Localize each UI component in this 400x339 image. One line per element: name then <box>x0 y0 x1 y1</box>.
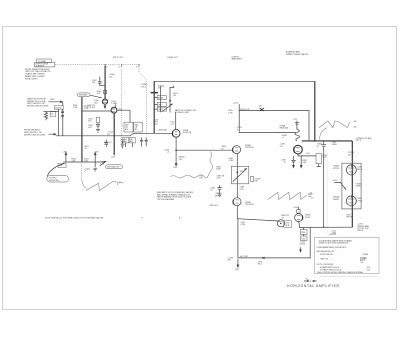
resistor R396 box <box>301 235 308 241</box>
wire V314 plate stub <box>114 105 116 108</box>
svg-text:R308 R34.7K 470: R308 R34.7K 470 <box>87 105 95 109</box>
diode CR472 on wire <box>258 106 264 111</box>
wire vertical left <box>58 109 60 136</box>
trimmer R387 arrow <box>233 169 247 182</box>
label oval sweep mag right <box>106 165 123 169</box>
capacitor C307 plates <box>98 77 105 86</box>
svg-text:AC TEST: AC TEST <box>240 255 249 258</box>
svg-text:+225: +225 <box>293 119 297 121</box>
svg-text:R434AW77W: R434AW77W <box>333 165 340 170</box>
wire upper plate feed <box>239 110 309 112</box>
svg-text:TO SWP: TO SWP <box>38 61 47 63</box>
wire cathode bottom run <box>299 226 352 228</box>
waveform baseline dashes <box>119 182 124 184</box>
svg-text:DISPLAY SW: DISPLAY SW <box>49 179 60 182</box>
pot R321 arrow <box>65 153 67 162</box>
wire divider drop <box>303 227 305 229</box>
resistor R302 zigzag <box>44 112 47 121</box>
resistor R388 body <box>251 176 254 181</box>
svg-text:37: 37 <box>136 67 138 69</box>
sweep cal box B <box>134 122 143 132</box>
svg-text:C30: C30 <box>51 113 54 115</box>
svg-text:100K: 100K <box>50 99 55 101</box>
wire vertical delay feed <box>153 81 155 133</box>
svg-text:DELAY CKT: DELAY CKT <box>168 56 179 59</box>
wire plate drop V384A <box>236 154 238 198</box>
wire vertical right <box>62 102 64 106</box>
connector pin lower <box>346 196 356 206</box>
svg-text:C380 .001: C380 .001 <box>209 205 218 207</box>
svg-text:R470 4.7K: R470 4.7K <box>240 109 250 111</box>
ground tick R399 <box>317 164 321 167</box>
capacitor C390 label <box>284 221 292 228</box>
wire arrow from oval to tube <box>90 95 102 98</box>
waveform leader arc <box>320 128 327 140</box>
wire drop to output bus <box>309 227 311 258</box>
wire arrow from sawtooth note <box>49 101 63 103</box>
svg-text:NOTE: SEE EB 20-1 FOR SEM: NOTE: SEE EB 20-1 FOR SEMICONDUCTOR TYPE… <box>45 217 104 220</box>
junction dot interstage <box>175 149 177 151</box>
capacitor C318 pair <box>140 138 148 147</box>
svg-text:R3071.2M: R3071.2M <box>73 105 78 109</box>
resistor R399 box <box>316 154 322 164</box>
wire grid feed <box>82 110 111 112</box>
wire arrow from delay note <box>49 133 56 135</box>
resistor R394 plate box <box>293 207 300 214</box>
tube V314 <box>111 107 117 113</box>
supply stub coil <box>295 121 299 130</box>
wire mid plate drop <box>308 111 310 141</box>
tube V384A <box>233 146 241 154</box>
resistor R397 chain <box>300 156 302 168</box>
wire vertical right of box <box>62 109 64 136</box>
dashed boundary wire right with jog <box>139 64 147 133</box>
resistor R395 box <box>301 230 308 235</box>
wire long drop C398 <box>323 150 325 227</box>
svg-text:R4721.2M: R4721.2M <box>228 110 233 114</box>
wire stub a <box>154 97 157 99</box>
pot label oval SWP MAG REGIS <box>78 93 90 97</box>
svg-text:L343 R343: L343 R343 <box>158 129 167 131</box>
tube V384B <box>233 198 241 206</box>
tube V394B <box>295 214 303 222</box>
svg-text:L390C390: L390C390 <box>241 222 246 226</box>
terminal tick 47 <box>136 64 139 68</box>
svg-text:SWP: SWP <box>125 124 129 126</box>
junction dot R387 <box>236 171 238 173</box>
capacitor C316 symbol <box>104 140 108 148</box>
capacitor ticks pair <box>61 111 64 117</box>
svg-text:+SW: +SW <box>94 151 98 153</box>
dashed wire from terminal box <box>55 63 139 65</box>
trimmer arrow <box>162 104 173 112</box>
waveform sawtooth left <box>86 182 118 191</box>
wire grid hook <box>170 86 174 112</box>
svg-text:BLANKING: BLANKING <box>36 64 45 67</box>
trimmer box R373 <box>157 96 166 100</box>
terminal tick 27 <box>105 64 107 68</box>
capacitor C370 plate bar <box>151 92 158 94</box>
reference mark B arrows <box>304 278 317 283</box>
capacitor C302 box <box>50 112 55 117</box>
wire stub c <box>154 108 157 110</box>
trimmer box R374 <box>157 107 166 111</box>
connector pin upper <box>346 165 356 175</box>
wire right plate drop <box>314 81 316 141</box>
main bus wire lower <box>56 133 172 136</box>
wire cathode drop V384B <box>236 206 238 219</box>
svg-text:+10: +10 <box>311 198 314 200</box>
terminal tick 37 <box>119 64 122 68</box>
svg-text:C472: C472 <box>258 106 262 108</box>
terminal box TO SWEEP / HIGH VOLTAGE <box>35 59 55 67</box>
trimmer box R387 <box>231 166 249 184</box>
faint rule below table <box>320 275 379 277</box>
svg-text:R396: R396 <box>301 238 305 240</box>
curve wire to horiz display <box>47 164 64 177</box>
svg-text:R395: R395 <box>301 232 305 234</box>
wire stub b <box>154 103 157 105</box>
wire cathode drop V343B <box>175 137 177 166</box>
svg-text:L442 R44: L442 R44 <box>329 234 336 236</box>
pot wiper feed <box>335 182 346 189</box>
svg-text:L384C384: L384C384 <box>229 158 234 162</box>
svg-text:L372+4.5: L372+4.5 <box>170 121 174 125</box>
sweep cal box A <box>124 122 133 132</box>
junction dot <box>169 100 171 102</box>
resistor R301 box <box>54 106 63 110</box>
ground symbol C383 <box>218 194 222 197</box>
wire cathode junction V394A <box>298 154 316 156</box>
output bus vertical <box>351 141 353 227</box>
tube V304 <box>102 99 107 104</box>
wire plate drop V314 <box>113 113 115 155</box>
pot R323 arrow <box>94 153 96 162</box>
wire lower interstage <box>237 219 278 221</box>
wire vertical into tube V304 <box>104 66 106 99</box>
wire box feed <box>117 110 130 122</box>
cable squiggle wire <box>170 152 212 179</box>
ground symbol bus2 <box>93 162 97 171</box>
wire coil feed <box>239 132 295 134</box>
svg-text:+80: +80 <box>309 192 312 194</box>
capacitor C311 plates <box>96 123 100 129</box>
svg-text:IN ALL CONTROL MODE LOWER: IN ALL CONTROL MODE LOWER ALL READINGS N… <box>317 271 363 274</box>
capacitor C317 symbol <box>121 142 125 149</box>
wire V304 cathode arrow <box>104 104 106 108</box>
capacitor C398 plates <box>321 141 326 150</box>
resistor R311 body <box>96 117 99 123</box>
svg-text:SWP: SWP <box>123 139 126 141</box>
tube V343B <box>172 129 180 137</box>
capacitor C396 chain <box>291 156 295 168</box>
svg-text:+140: +140 <box>353 121 357 123</box>
paper fold crease line <box>326 152 328 234</box>
wire plate line top <box>154 80 315 82</box>
ground symbol <box>96 129 100 132</box>
wire into tube V343 <box>175 112 177 129</box>
svg-text:+L447TNK-4: +L447TNK-4 <box>357 167 362 171</box>
dashed boundary wire left <box>121 64 123 147</box>
junction x mark <box>263 257 265 259</box>
svg-text:HORIZONTAL AMPLIFIER: HORIZONTAL AMPLIFIER <box>287 284 340 288</box>
wire cathode bus drop <box>81 97 83 162</box>
cathode bus 2 <box>64 161 106 163</box>
dashed drop below bus2 <box>81 164 83 179</box>
arrow supply down <box>113 153 115 155</box>
svg-text:V394B7DL39: V394B7DL39 <box>305 215 311 219</box>
wire interstage <box>176 149 233 151</box>
tube V394A <box>294 145 303 154</box>
svg-text:LINE: LINE <box>158 105 162 107</box>
trimmer box C <box>123 138 129 147</box>
wire deflection feed <box>302 140 353 142</box>
label oval to horizontal display <box>47 176 69 182</box>
svg-text:+ 180V: + 180V <box>293 207 299 209</box>
trimmer column wire <box>160 86 162 112</box>
svg-text:27: 27 <box>119 67 121 69</box>
waveform sawtooth center <box>268 192 307 199</box>
tube E390 <box>277 220 284 227</box>
voltage table box <box>314 237 379 273</box>
wire output bottom <box>238 257 310 259</box>
svg-text:+100: +100 <box>353 127 357 129</box>
capacitor C413 label with arrow <box>299 241 305 251</box>
wire arc to waveform <box>82 179 87 189</box>
inductor L394 coil <box>295 130 300 141</box>
svg-text:SWP MAG REG: SWP MAG REG <box>107 166 120 169</box>
svg-text:INPUT CKT: INPUT CKT <box>113 57 124 59</box>
svg-text:L441: L441 <box>333 180 337 182</box>
svg-text:SWP/MAG: SWP/MAG <box>79 94 88 97</box>
svg-text:VOLTAGES AND WAVEFORMS OBTA: VOLTAGES AND WAVEFORMS OBTAINED UNDER CO… <box>319 239 353 244</box>
supply arrow -150v <box>237 259 239 267</box>
capacitor C383 plates <box>217 185 221 193</box>
wire drop from V384B chain <box>237 219 239 258</box>
svg-text:C3901N-B: C3901N-B <box>285 223 290 227</box>
note marker dot <box>142 217 143 218</box>
svg-text:L375C375: L375C375 <box>199 176 203 180</box>
svg-text:L393R1.5: L393R1.5 <box>258 261 262 265</box>
svg-text:T.37NLC4NN: T.37NLC4NN <box>355 183 361 187</box>
resistor R306 body inline <box>104 90 107 94</box>
waveform sawtooth right <box>319 121 350 128</box>
svg-text:+ 225V: + 225V <box>233 103 240 105</box>
junction dot deflection <box>314 140 316 142</box>
wire supply drop <box>238 104 240 132</box>
svg-text:+C413+R413: +C413+R413 <box>299 241 305 245</box>
svg-text:R385180K: R385180K <box>216 166 221 170</box>
wiper arrow right <box>100 161 106 165</box>
trimmer box C373 <box>157 102 166 106</box>
svg-text:26: 26 <box>106 67 108 69</box>
connector housing box <box>342 163 361 209</box>
svg-text:R387: R387 <box>240 171 244 173</box>
junction C398 drop <box>323 226 324 227</box>
wire plate chain V394B <box>298 222 301 228</box>
trimmer box D <box>129 138 135 147</box>
wire stub over R302 <box>44 110 59 112</box>
svg-text:+SW: +SW <box>63 151 67 153</box>
small box SW <box>58 163 66 167</box>
